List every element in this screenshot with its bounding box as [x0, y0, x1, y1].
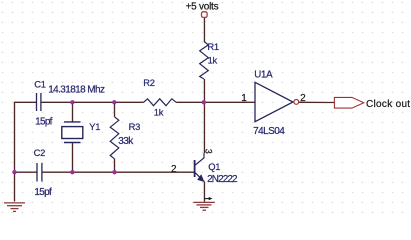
wire crystal branch lower [72, 143, 74, 173]
wire +5 to R1 [203, 17, 205, 41]
arrow at emitter ground [204, 198, 209, 200]
svg-text:1k: 1k [154, 106, 164, 117]
svg-text:Y1: Y1 [89, 121, 100, 132]
svg-text:15pf: 15pf [35, 116, 53, 127]
resistor R3 [110, 117, 119, 159]
svg-text:C1: C1 [34, 79, 45, 90]
capacitor C1 [37, 93, 41, 111]
wire inverter output to port [299, 101, 335, 103]
power symbol +5 volts circle [202, 12, 208, 18]
junction top rail / crystal [70, 100, 74, 104]
junction bottom rail / left rail [12, 170, 16, 174]
svg-text:Q1: Q1 [208, 161, 220, 172]
svg-text:C2: C2 [34, 147, 45, 158]
junction bottom rail / crystal [70, 170, 74, 174]
inverter output bubble [294, 100, 299, 105]
wire R1 to collector [203, 79, 205, 153]
svg-text:33k: 33k [118, 136, 134, 147]
wire left rail [14, 102, 16, 202]
svg-text:R2: R2 [143, 77, 154, 88]
svg-text:R1: R1 [207, 41, 218, 52]
svg-text:+5 volts: +5 volts [186, 2, 219, 13]
svg-text:1: 1 [241, 93, 247, 104]
wire crystal branch upper [72, 102, 74, 122]
wire emitter to ground [203, 181, 205, 202]
wire top rail right of R2 to inverter [176, 101, 255, 103]
svg-text:Clock out: Clock out [366, 99, 410, 110]
svg-text:2N2222: 2N2222 [207, 174, 238, 185]
junction top rail / R1-collector node [202, 100, 206, 104]
wire bottom rail [15, 171, 195, 173]
junction top rail / R3 [112, 100, 116, 104]
op-amp U1A inverter triangle [255, 82, 293, 121]
port Clock out [334, 97, 363, 108]
wire R3 branch lower [114, 159, 116, 172]
wire R3 branch upper [114, 102, 116, 117]
svg-text:15pf: 15pf [34, 187, 52, 198]
capacitor C2 [37, 163, 42, 182]
transistor Q1 [195, 153, 204, 181]
ground (Q1 emitter) [193, 202, 215, 210]
svg-text:2: 2 [300, 93, 306, 104]
resistor R1 [200, 41, 209, 79]
svg-text:74LS04: 74LS04 [253, 126, 285, 137]
wire top rail left segment [15, 101, 144, 103]
svg-text:14.31818 Mhz: 14.31818 Mhz [48, 85, 105, 96]
svg-text:U1A: U1A [254, 70, 273, 81]
svg-text:3: 3 [204, 149, 214, 154]
svg-text:2: 2 [171, 164, 177, 175]
crystal Y1 [62, 122, 83, 143]
resistor R2 [144, 99, 177, 106]
junction bottom rail / R3 [112, 170, 116, 174]
svg-text:R3: R3 [129, 121, 140, 132]
svg-text:1k: 1k [208, 55, 218, 66]
ground (left rail) [4, 203, 25, 212]
